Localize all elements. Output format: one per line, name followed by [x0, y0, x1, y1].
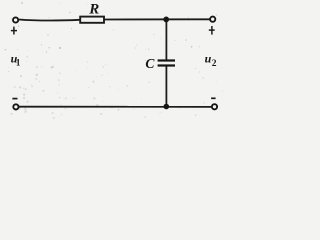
- junction node top (R-C-output net): [163, 17, 169, 23]
- svg-text:1: 1: [16, 57, 21, 67]
- paper background: [0, 0, 228, 120]
- polarity mark + (top-left): [11, 27, 17, 35]
- polarity mark - (bottom-right): [211, 97, 216, 99]
- net label u2 (output voltage): [205, 52, 217, 70]
- terminal input - (bottom-left): [13, 104, 18, 109]
- paper speckle texture: [5, 2, 224, 119]
- wire capacitor top lead: [165, 19, 167, 59]
- junction node bottom (C-return net): [164, 104, 170, 110]
- resistor R1 value label R: [88, 1, 99, 17]
- wire capacitor bottom lead: [165, 66, 167, 106]
- terminal input + (top-left): [13, 17, 18, 22]
- svg-text:C: C: [145, 56, 155, 71]
- wire top-right (resistor to output +): [105, 18, 210, 20]
- svg-text:u: u: [205, 52, 212, 66]
- terminal output - (bottom-right): [212, 104, 217, 109]
- net label u1 (input voltage): [11, 52, 21, 68]
- terminal output + (top-right): [210, 17, 215, 22]
- svg-text:2: 2: [212, 59, 217, 69]
- capacitor C1 bottom plate: [158, 64, 175, 66]
- wire bottom (input - to output -): [19, 106, 212, 108]
- wire top-left (input + to resistor): [19, 20, 80, 21]
- capacitor C1 top plate: [158, 59, 175, 61]
- svg-text:R: R: [88, 1, 99, 17]
- polarity mark + (top-right): [209, 26, 215, 35]
- polarity mark - (bottom-left): [12, 98, 17, 100]
- resistor R1 body: [80, 17, 104, 23]
- capacitor C1 value label C: [145, 56, 155, 71]
